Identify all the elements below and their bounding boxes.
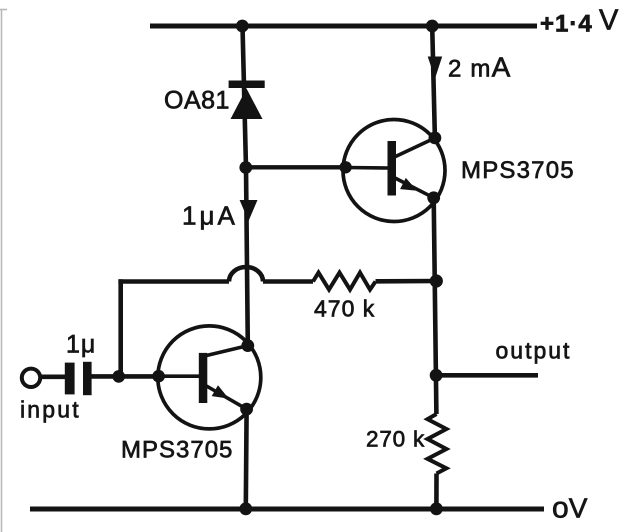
svg-text:V: V: [599, 5, 619, 37]
svg-text:MPS3705: MPS3705: [121, 437, 233, 464]
svg-text:input: input: [20, 397, 81, 423]
svg-text:270 k: 270 k: [366, 427, 425, 452]
svg-text:MPS3705: MPS3705: [461, 157, 575, 184]
svg-text:+1·4: +1·4: [540, 11, 593, 38]
svg-text:OA81: OA81: [164, 87, 230, 115]
svg-text:output: output: [496, 338, 572, 364]
svg-text:470 k: 470 k: [314, 296, 375, 322]
svg-text:2 mA: 2 mA: [448, 52, 512, 83]
svg-text:oV: oV: [552, 492, 588, 525]
svg-text:1μ: 1μ: [66, 331, 96, 359]
svg-text:1μA: 1μA: [182, 201, 238, 231]
